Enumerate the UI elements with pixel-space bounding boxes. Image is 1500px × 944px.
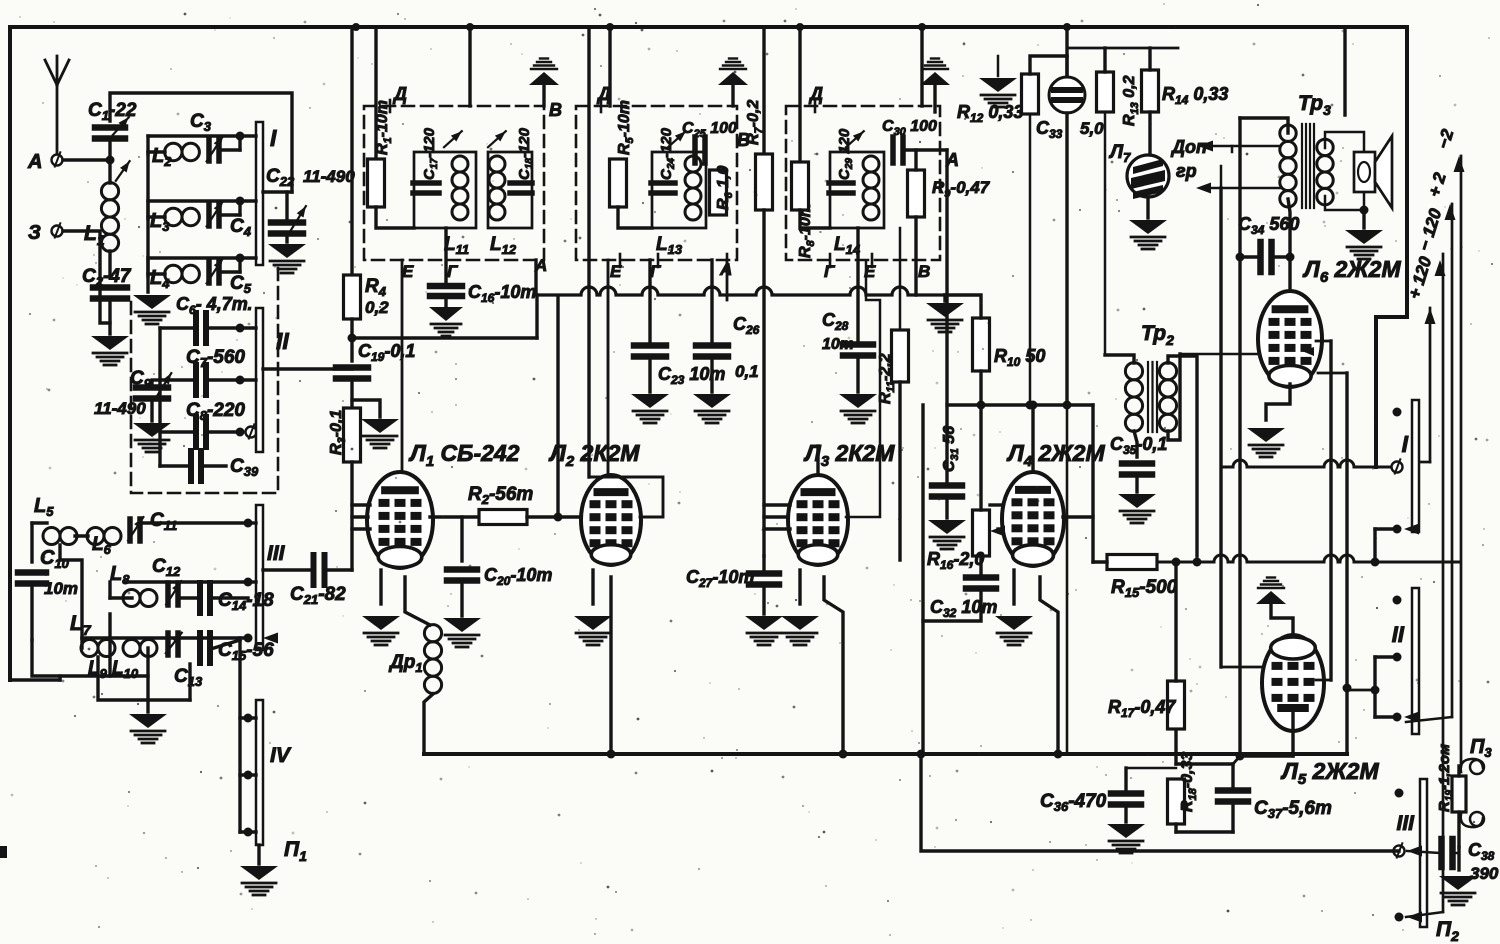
svg-text:Е: Е — [402, 262, 414, 281]
svg-text:R19-1,2ом: R19-1,2ом — [1436, 744, 1455, 812]
svg-text:С34 560: С34 560 — [1238, 214, 1299, 237]
svg-text:Л1 СБ-242: Л1 СБ-242 — [408, 440, 520, 470]
svg-text:С23 10т: С23 10т — [658, 364, 725, 387]
svg-text:С36-470: С36-470 — [1040, 791, 1107, 814]
svg-text:R9-0,47: R9-0,47 — [932, 178, 991, 200]
svg-text:Доп: Доп — [1170, 137, 1207, 157]
svg-text:R14 0,33: R14 0,33 — [1162, 84, 1228, 107]
svg-text:С29 120: С29 120 — [836, 128, 855, 180]
svg-text:А: А — [27, 151, 42, 173]
svg-text:Л6 2Ж2М: Л6 2Ж2М — [1302, 256, 1401, 286]
svg-text:С17-120: С17-120 — [421, 127, 440, 180]
svg-text:С20-10т: С20-10т — [484, 565, 552, 588]
svg-text:R17-0,47: R17-0,47 — [1108, 697, 1176, 720]
svg-text:З: З — [28, 222, 41, 244]
svg-text:III: III — [267, 542, 286, 565]
svg-text:Л2 2К2М: Л2 2К2М — [548, 440, 640, 470]
svg-text:R15-500: R15-500 — [1111, 577, 1178, 600]
svg-text:I: I — [1402, 431, 1409, 457]
svg-text:С14-18: С14-18 — [218, 590, 274, 613]
svg-text:В: В — [918, 262, 930, 281]
svg-text:11-490: 11-490 — [94, 399, 146, 418]
svg-text:R2-56т: R2-56т — [468, 484, 533, 507]
svg-text:Д: Д — [596, 84, 611, 104]
svg-text:R10 50: R10 50 — [994, 346, 1045, 369]
svg-text:390: 390 — [1470, 864, 1499, 883]
svg-text:III: III — [1396, 812, 1415, 835]
svg-text:0,2: 0,2 — [365, 298, 389, 317]
svg-text:Д: Д — [392, 84, 407, 104]
svg-text:С35-0,1: С35-0,1 — [1110, 434, 1167, 457]
svg-text:0,1: 0,1 — [735, 362, 759, 381]
svg-text:В: В — [549, 100, 562, 120]
svg-text:С37-5,6т: С37-5,6т — [1254, 798, 1332, 821]
svg-text:С6- 4,7т.: С6- 4,7т. — [176, 294, 252, 317]
svg-text:Г: Г — [447, 262, 459, 281]
svg-text:5,0: 5,0 — [1080, 119, 1104, 138]
svg-text:Л5 2Ж2М: Л5 2Ж2М — [1280, 758, 1379, 788]
svg-text:R12 0,33: R12 0,33 — [957, 102, 1023, 125]
svg-text:С27-10т: С27-10т — [686, 567, 754, 590]
svg-text:С18-120: С18-120 — [516, 127, 535, 180]
svg-text:Л4 2Ж2М: Л4 2Ж2М — [1006, 440, 1105, 470]
svg-text:С1-22: С1-22 — [88, 100, 137, 123]
svg-text:II: II — [1392, 622, 1405, 647]
svg-text:Г: Г — [650, 262, 662, 281]
svg-text:С24-120: С24-120 — [658, 127, 677, 180]
svg-text:С32 10т: С32 10т — [930, 597, 997, 620]
svg-text:IV: IV — [270, 744, 292, 767]
svg-text:R16-2,0: R16-2,0 — [927, 549, 984, 572]
svg-text:11-490: 11-490 — [303, 167, 355, 186]
svg-text:гр: гр — [1176, 161, 1197, 181]
svg-text:С19-0,1: С19-0,1 — [358, 341, 415, 364]
svg-text:I: I — [270, 125, 277, 151]
svg-text:С21-82: С21-82 — [290, 584, 346, 607]
svg-text:С16-10т: С16-10т — [468, 282, 536, 305]
